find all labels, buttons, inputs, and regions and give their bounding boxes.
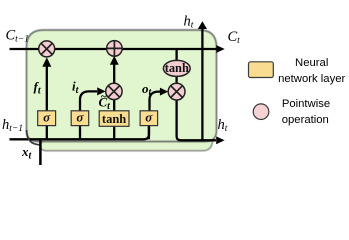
arrowhead into output multiply — [160, 88, 168, 96]
wire h output: down from output multiply, right to exit — [177, 100, 216, 140]
svg-text:ht−1: ht−1 — [2, 117, 23, 134]
legend neural network layer swatch — [249, 62, 274, 78]
arrowhead h_t top output — [198, 21, 207, 29]
arrowhead into forget multiply — [42, 57, 51, 66]
neural layer sigma2 (input gate) — [71, 109, 89, 125]
wire C-line (cell state, top) — [10, 48, 217, 50]
svg-text:operation: operation — [282, 114, 329, 126]
wire candidate (tanh box) column — [113, 99, 115, 139]
wire h_t up branch — [201, 29, 203, 141]
svg-text:network layer: network layer — [278, 73, 345, 85]
LSTM cell body — [27, 30, 217, 142]
pointwise multiply (output) — [168, 83, 185, 100]
svg-text:Ct−1: Ct−1 — [6, 28, 29, 45]
svg-text:Neural: Neural — [295, 57, 328, 69]
wire h-line (bottom, from h_t-1) — [10, 126, 150, 140]
pointwise tanh ellipse — [163, 60, 190, 76]
arrowhead C_t output — [216, 45, 224, 53]
wire i gate curve to input multiply — [80, 91, 97, 110]
neural layer tanh (candidate) — [99, 111, 129, 127]
arrowhead into adder — [110, 56, 119, 65]
pointwise add — [107, 41, 123, 57]
arrowhead into input multiply — [97, 87, 105, 95]
pointwise multiply (input) — [106, 83, 122, 99]
svg-text:~: ~ — [101, 91, 107, 103]
svg-text:tanh: tanh — [165, 61, 189, 75]
wire x_t input — [39, 139, 42, 165]
svg-text:tanh: tanh — [102, 112, 126, 126]
svg-text:ht: ht — [184, 14, 194, 31]
svg-text:σ: σ — [76, 109, 84, 124]
svg-text:xt: xt — [21, 144, 33, 161]
wire o gate curve to output multiply — [150, 92, 161, 111]
svg-text:σ: σ — [145, 109, 153, 124]
wire i gate column — [79, 126, 81, 140]
arrowhead h_t right output — [216, 136, 224, 144]
neural layer sigma3 (output gate) — [140, 109, 158, 125]
svg-text:Pointwise: Pointwise — [282, 98, 330, 110]
neural layer sigma1 (forget gate) — [38, 109, 56, 125]
wire tanh column from C-line — [175, 49, 177, 83]
svg-text:σ: σ — [43, 109, 51, 124]
svg-text:Ct: Ct — [228, 29, 241, 46]
legend pointwise operation swatch — [253, 104, 269, 120]
cell bottom-left corner accent — [27, 130, 41, 145]
wire f gate column — [46, 66, 48, 139]
pointwise multiply (forget) — [39, 41, 55, 57]
svg-text:ht: ht — [218, 117, 228, 134]
wire o gate column — [148, 126, 150, 140]
wire input-multiply to adder — [113, 64, 115, 83]
LSTM cell body band (lower tab) — [40, 140, 212, 150]
